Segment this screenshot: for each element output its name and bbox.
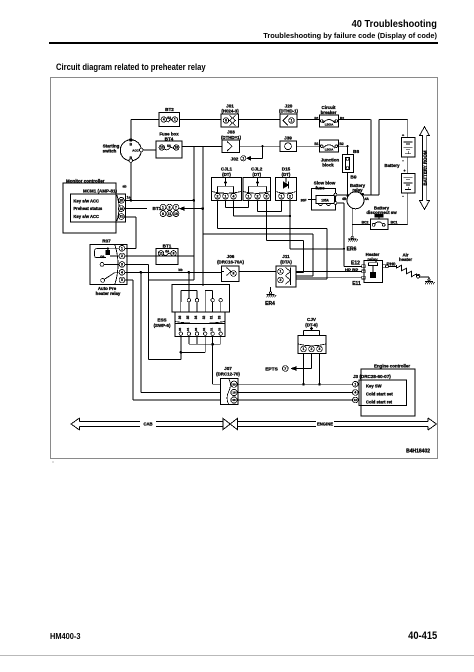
svg-text:1a: 1a [127, 195, 131, 199]
svg-text:4B: 4B [342, 197, 347, 201]
svg-text:1: 1 [280, 270, 282, 274]
svg-text:ESS: ESS [157, 317, 166, 322]
svg-text:J3 (DRC28-60-07): J3 (DRC28-60-07) [353, 374, 391, 379]
svg-text:(DRC16-70A): (DRC16-70A) [217, 260, 244, 265]
svg-text:BATTERY ROOM: BATTERY ROOM [422, 150, 427, 185]
svg-text:30: 30 [232, 382, 236, 386]
svg-text:35: 35 [186, 316, 190, 320]
svg-text:bb: bb [178, 268, 182, 272]
svg-text:J07: J07 [224, 366, 232, 371]
svg-text:CJV: CJV [307, 317, 317, 322]
svg-text:1: 1 [291, 119, 293, 123]
svg-text:10: 10 [160, 146, 164, 150]
svg-text:1: 1 [174, 118, 176, 122]
svg-text:(DTHD-1): (DTHD-1) [279, 109, 299, 114]
svg-text:34: 34 [194, 316, 198, 320]
svg-text:8: 8 [225, 119, 227, 123]
svg-text:8: 8 [233, 272, 235, 276]
svg-text:J11: J11 [282, 254, 290, 259]
svg-text:20: 20 [120, 198, 124, 202]
svg-text:Battery: Battery [384, 163, 400, 168]
svg-text:6A: 6A [165, 250, 170, 254]
svg-text:16: 16 [120, 207, 124, 211]
svg-text:3: 3 [266, 194, 268, 198]
svg-text:2: 2 [217, 194, 219, 198]
svg-text:06: 06 [232, 398, 236, 402]
svg-text:B1: B1 [314, 117, 318, 121]
svg-text:CAB: CAB [143, 422, 152, 427]
svg-text:LBOA: LBOA [325, 148, 334, 152]
svg-text:(DT-6): (DT-6) [305, 322, 318, 327]
svg-text:11: 11 [159, 251, 163, 255]
svg-text:18: 18 [232, 391, 236, 395]
svg-text:relay: relay [367, 257, 378, 262]
svg-text:(DTHD=1): (DTHD=1) [221, 135, 242, 140]
svg-text:HP RP: HP RP [345, 267, 358, 272]
svg-text:B9: B9 [350, 175, 356, 181]
svg-text:5: 5 [121, 278, 123, 282]
svg-text:4: 4 [354, 391, 356, 395]
svg-text:4: 4 [233, 194, 235, 198]
svg-text:J39: J39 [284, 136, 292, 141]
svg-text:EPTS: EPTS [265, 367, 278, 373]
svg-text:B2: B2 [340, 117, 344, 121]
svg-text:+: + [403, 168, 406, 173]
svg-text:-: - [402, 158, 404, 163]
svg-text:4: 4 [163, 118, 165, 122]
svg-text:-: - [402, 194, 404, 199]
svg-text:switch: switch [103, 149, 117, 154]
svg-text:1: 1 [281, 194, 283, 198]
svg-text:7: 7 [175, 205, 177, 209]
svg-text:31: 31 [210, 316, 214, 320]
svg-text:1: 1 [162, 205, 164, 209]
svg-text:01: 01 [210, 328, 214, 332]
svg-text:135A: 135A [321, 198, 329, 202]
svg-text:MCM1 (AMP-81): MCM1 (AMP-81) [83, 189, 118, 194]
svg-text:(DT): (DT) [282, 172, 291, 177]
svg-text:06: 06 [194, 328, 198, 332]
svg-text:3: 3 [169, 205, 171, 209]
svg-text:E12: E12 [351, 261, 360, 267]
svg-text:4: 4 [121, 271, 123, 275]
svg-text:CJL2: CJL2 [251, 167, 263, 172]
svg-text:3: 3 [319, 347, 321, 351]
svg-text:09: 09 [100, 255, 104, 259]
svg-text:B1: B1 [314, 142, 318, 146]
svg-text:Cold start ret: Cold start ret [366, 400, 393, 405]
svg-text:J20: J20 [285, 103, 293, 108]
svg-text:04: 04 [186, 328, 190, 332]
svg-text:J03: J03 [227, 130, 235, 135]
svg-text:CJL1: CJL1 [221, 167, 233, 172]
svg-text:1: 1 [225, 194, 227, 198]
svg-text:02: 02 [202, 328, 206, 332]
svg-text:32: 32 [202, 316, 206, 320]
svg-text:B8: B8 [353, 149, 359, 155]
svg-text:1: 1 [354, 382, 356, 386]
svg-text:heater relay: heater relay [96, 291, 121, 296]
svg-text:2: 2 [311, 347, 313, 351]
svg-text:E11: E11 [352, 281, 361, 287]
svg-text:(DTA): (DTA) [280, 260, 292, 265]
svg-text:8: 8 [173, 251, 175, 255]
svg-text:B2: B2 [339, 142, 343, 146]
svg-text:4A: 4A [365, 197, 370, 201]
svg-text:30F: 30F [301, 198, 307, 202]
svg-text:D15: D15 [282, 167, 291, 172]
svg-text:J02: J02 [231, 156, 239, 161]
svg-text:2: 2 [280, 278, 282, 282]
svg-text:breaker: breaker [321, 110, 337, 115]
svg-text:Preheat status: Preheat status [73, 206, 103, 211]
svg-text:(DRC12-70): (DRC12-70) [216, 371, 240, 376]
svg-text:(SWP-6): (SWP-6) [154, 323, 171, 328]
svg-text:BT2: BT2 [165, 107, 174, 112]
svg-text:Key s/w ACC: Key s/w ACC [73, 198, 99, 203]
svg-text:BC1: BC1 [391, 220, 398, 224]
svg-text:(DT): (DT) [222, 172, 231, 177]
svg-text:J01: J01 [226, 103, 234, 108]
svg-text:31: 31 [120, 215, 124, 219]
svg-text:1: 1 [242, 157, 244, 161]
svg-text:2: 2 [289, 194, 291, 198]
svg-text:1: 1 [303, 347, 305, 351]
svg-text:7: 7 [284, 367, 286, 371]
svg-text:Cold start set: Cold start set [366, 392, 393, 397]
svg-text:ab: ab [123, 185, 127, 189]
svg-text:36: 36 [178, 316, 182, 320]
svg-text:33: 33 [218, 316, 222, 320]
svg-text:ENGINE: ENGINE [317, 422, 333, 427]
svg-text:ER6: ER6 [347, 247, 357, 253]
svg-text:+: + [402, 133, 405, 138]
svg-text:B4H18402: B4H18402 [406, 449, 430, 455]
svg-text:05: 05 [178, 328, 182, 332]
svg-text:6A: 6A [167, 116, 172, 120]
svg-text:8: 8 [162, 212, 164, 216]
svg-text:1: 1 [121, 247, 123, 251]
svg-text:10: 10 [174, 212, 178, 216]
svg-text:ER4: ER4 [265, 301, 275, 307]
svg-text:block: block [322, 163, 334, 168]
svg-text:BC2: BC2 [362, 220, 369, 224]
svg-text:R07: R07 [102, 239, 111, 244]
svg-text:LBOA: LBOA [325, 122, 334, 126]
svg-text:Key SW: Key SW [366, 384, 382, 389]
svg-text:Key s/w ACC: Key s/w ACC [73, 214, 99, 219]
svg-text:(H024-3): (H024-3) [221, 109, 239, 114]
svg-text:3: 3 [121, 263, 123, 267]
svg-text:12: 12 [354, 398, 358, 402]
svg-text:Engine controller: Engine controller [374, 363, 410, 368]
svg-text:BT1: BT1 [163, 243, 172, 248]
svg-text:03: 03 [218, 328, 222, 332]
svg-text:18: 18 [174, 146, 178, 150]
svg-text:6A: 6A [167, 144, 172, 148]
svg-text:11: 11 [168, 212, 172, 216]
svg-text:(DT): (DT) [252, 172, 261, 177]
svg-text:1: 1 [248, 194, 250, 198]
svg-text:ACC: ACC [132, 148, 139, 152]
svg-text:PH0: PH0 [387, 261, 396, 266]
svg-text:heater: heater [399, 257, 412, 262]
svg-text:fuse: fuse [315, 185, 325, 190]
svg-text:2: 2 [121, 254, 123, 258]
svg-text:J06: J06 [227, 254, 235, 259]
svg-text:2: 2 [257, 194, 259, 198]
